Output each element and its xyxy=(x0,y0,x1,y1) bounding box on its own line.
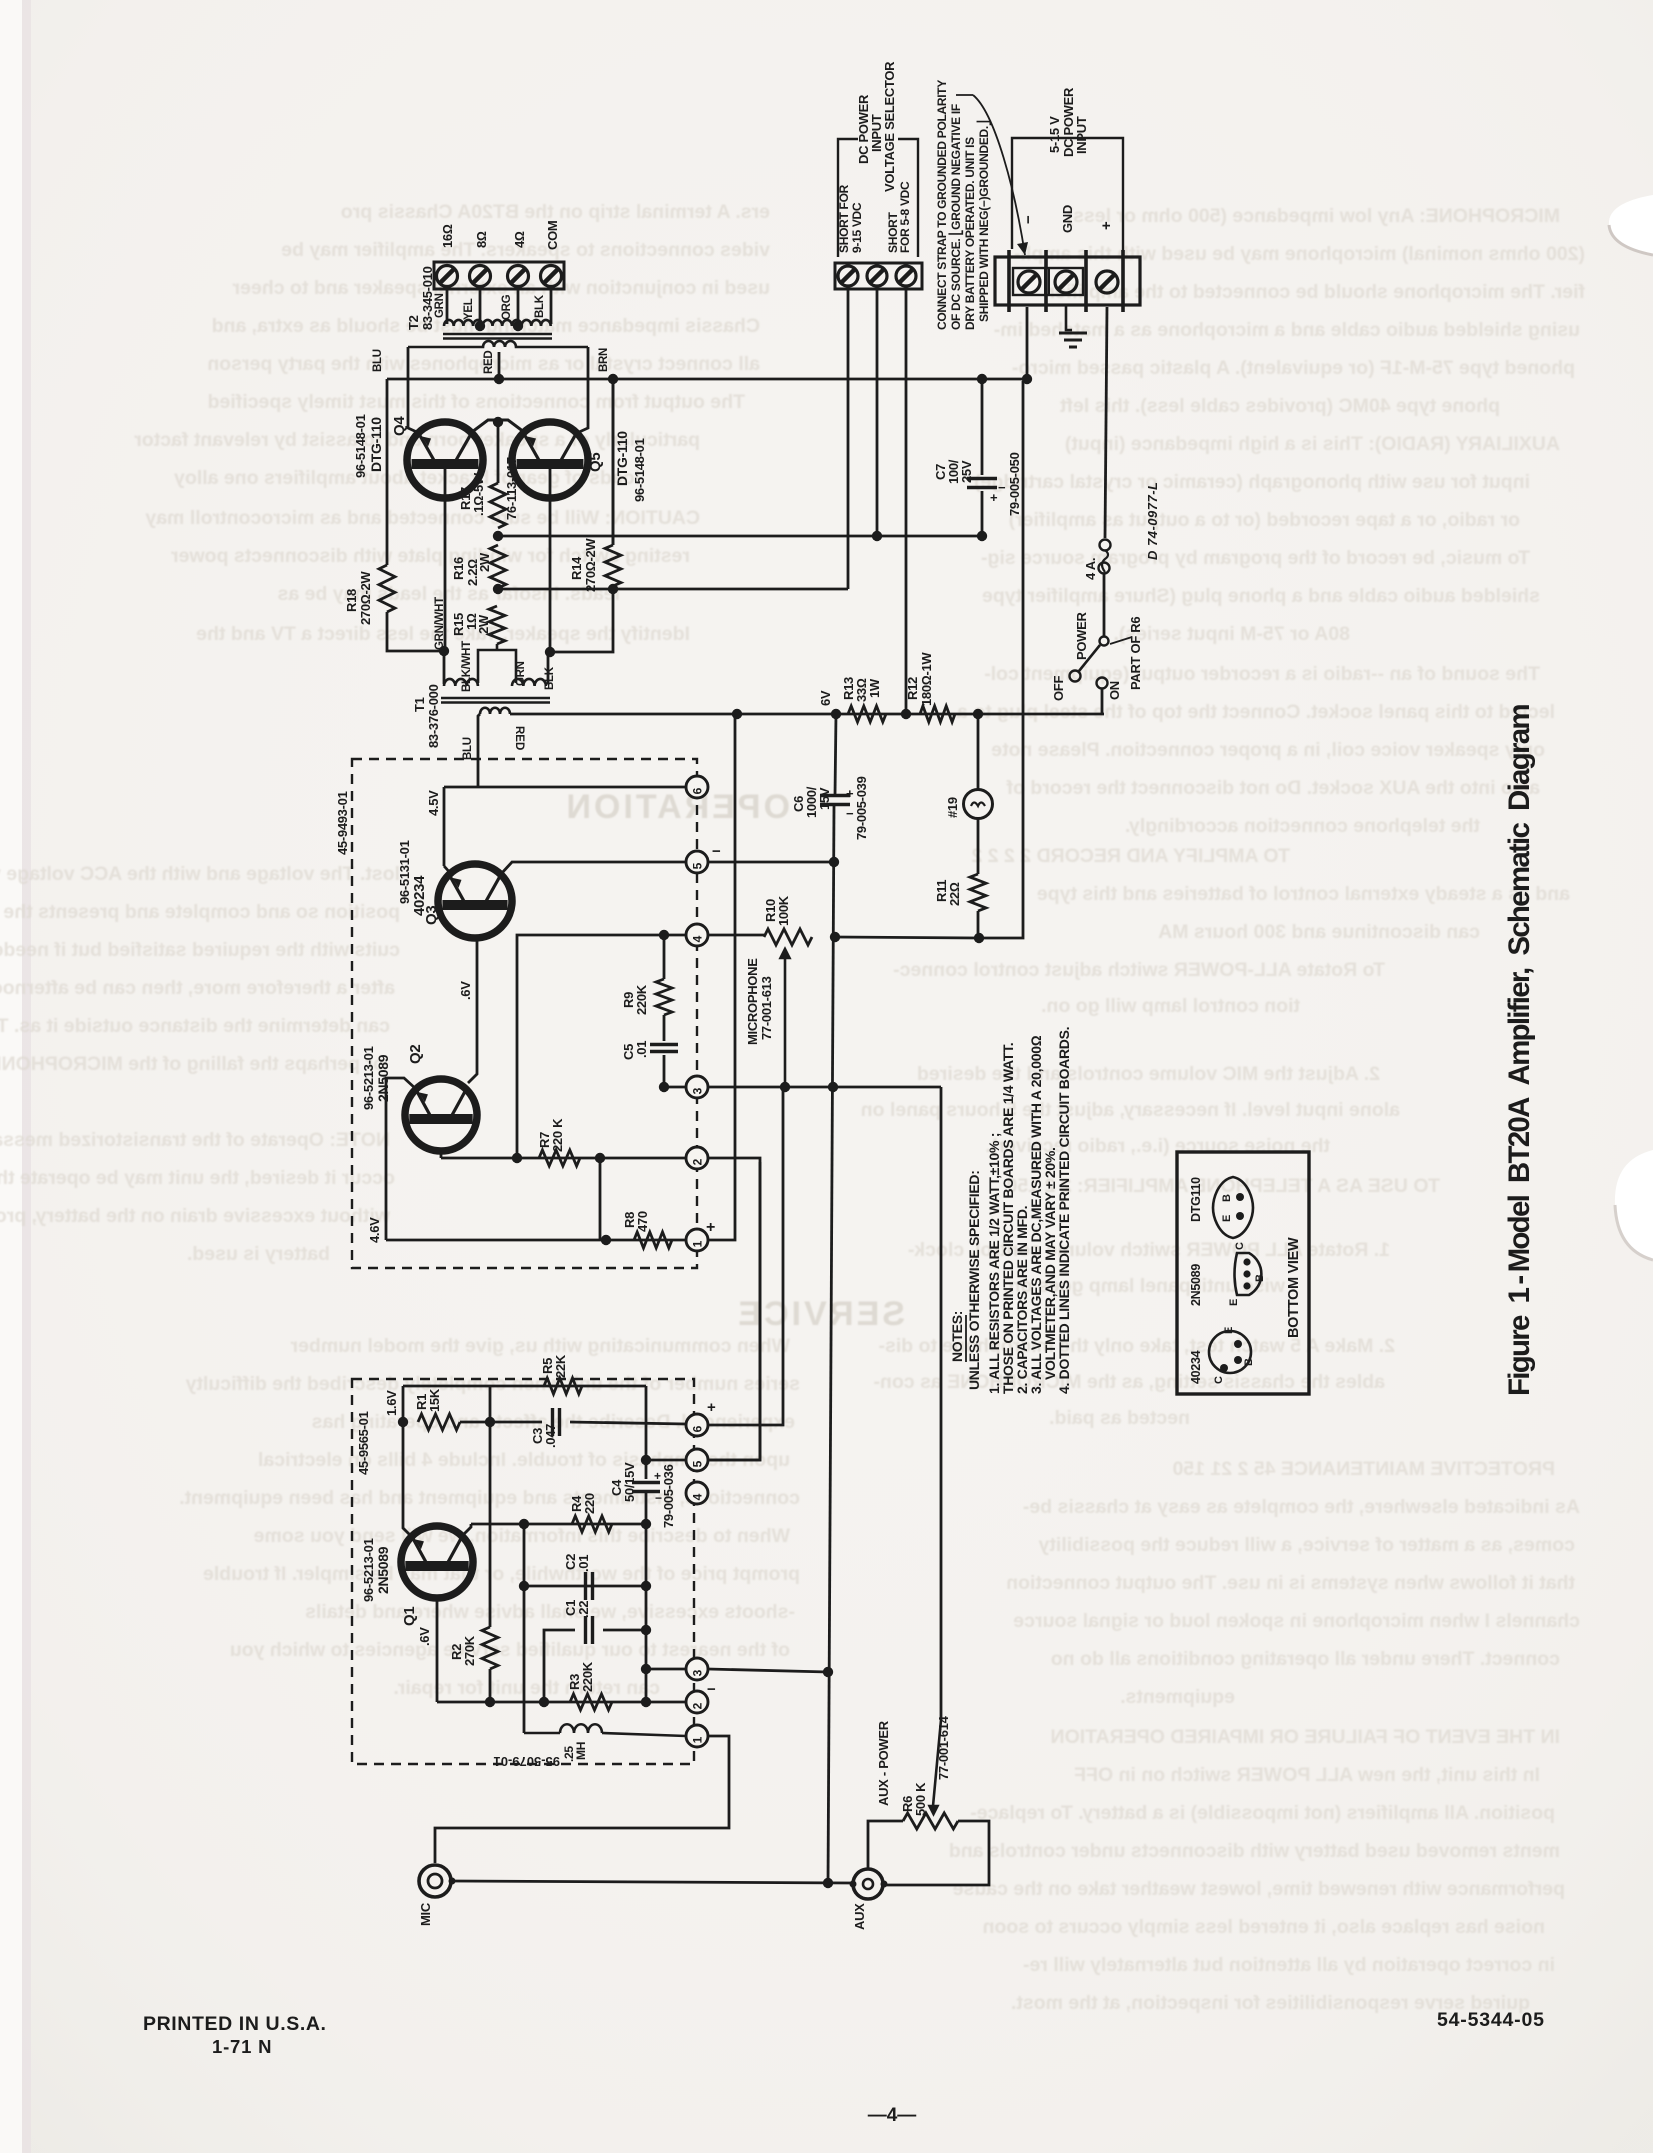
wire pin2 to riser xyxy=(708,1157,735,1160)
svg-text:C: C xyxy=(1234,1242,1246,1250)
inductor L1 .25MH xyxy=(524,1732,560,1735)
wire T2 primary right lead to Q5 collector xyxy=(577,347,588,433)
wire 4.6V rail to pin1 xyxy=(386,1239,686,1242)
wire C7 top lead xyxy=(981,379,984,475)
PCB1 pin 4 xyxy=(686,924,708,946)
node bottom C1 xyxy=(539,1697,549,1707)
svg-text:+: + xyxy=(707,1399,716,1416)
wire lamp bottom corner xyxy=(979,381,1023,938)
svg-text:NOTE: Operate of the transisto: NOTE: Operate of the transistorized mess… xyxy=(0,1129,390,1151)
wire C5 to pin3 line xyxy=(663,1055,666,1087)
svg-text:80A or 75-M input series).: 80A or 75-M input series). xyxy=(1113,623,1350,645)
svg-text:R16: R16 xyxy=(451,557,466,580)
svg-text:.1Ω-5W: .1Ω-5W xyxy=(471,472,486,516)
svg-text:B: B xyxy=(1221,1194,1233,1202)
svg-text:R18: R18 xyxy=(344,589,359,612)
svg-text:or radio, or a tape recorded (: or radio, or a tape recorded (or to a ou… xyxy=(1009,509,1520,531)
wire pin4 feed riser xyxy=(517,935,686,1158)
svg-text:BOTTOM VIEW: BOTTOM VIEW xyxy=(1286,1237,1302,1338)
svg-text:ers. A terminal strip on the B: ers. A terminal strip on the BT20A Chass… xyxy=(341,201,770,223)
svg-text:The output from connections of: The output from connections of this must… xyxy=(208,391,745,413)
wire T1 sec left BLU to pin6 line xyxy=(478,714,480,787)
svg-text:GRN/WHT: GRN/WHT xyxy=(434,597,446,650)
svg-text:220 K: 220 K xyxy=(550,1118,565,1152)
svg-text:also into the AUX socket. Do n: also into the AUX socket. Do not disconn… xyxy=(1006,777,1540,799)
terminal strip TB2 speaker output (16/8/4/COM) xyxy=(434,262,564,289)
wire pin3 stub PCB2 xyxy=(646,1668,686,1671)
svg-text:To Rotate ALL-POWER switch adj: To Rotate ALL-POWER switch adjust contro… xyxy=(893,959,1385,981)
wire R9-C5 stub xyxy=(663,1015,666,1041)
svg-text:without excessive drain on the: without excessive drain on the battery, … xyxy=(0,1205,391,1227)
wire bus A vertical xyxy=(835,714,836,795)
svg-text:270Ω-2W: 270Ω-2W xyxy=(583,538,598,592)
node R9 top junction xyxy=(659,930,669,940)
svg-text:4. DOTTED LINES INDICATE PRINT: 4. DOTTED LINES INDICATE PRINTED CIRCUIT… xyxy=(1056,1027,1072,1394)
screw 4-ohm xyxy=(508,266,529,287)
node rail-PCB1 riser xyxy=(732,709,742,719)
svg-text:79-005-039: 79-005-039 xyxy=(854,776,869,840)
svg-text:5-15 V: 5-15 V xyxy=(1047,116,1062,153)
svg-text:performance with renewed time,: performance with renewed time, lowest we… xyxy=(953,1878,1565,1900)
node R17-R16 junction xyxy=(493,531,503,541)
strap pointer curve xyxy=(956,95,1025,255)
wire lamp top lead xyxy=(977,714,980,789)
svg-text:-shoots excessive, we shall ad: -shoots excessive, we shall advise where… xyxy=(305,1601,795,1623)
svg-text:T1: T1 xyxy=(412,697,427,712)
wire C4 column mid xyxy=(645,1491,648,1702)
svg-text:R14: R14 xyxy=(569,556,584,580)
node C7 branch on rail xyxy=(977,374,987,384)
wire junction to R17 xyxy=(497,422,500,483)
wire Q4/Q5 drive join left xyxy=(472,420,498,432)
wire pin1 to MIC loop xyxy=(435,1736,729,1863)
node bottom C4col xyxy=(641,1697,651,1707)
svg-text:AUXILIARY (RADIO): This is a h: AUXILIARY (RADIO): This is a high impeda… xyxy=(1065,433,1560,455)
wire left edge down xyxy=(402,1386,405,1422)
wire BLU down to R18 xyxy=(386,379,389,565)
node BRN on rail xyxy=(608,374,618,384)
wire pin5 riser xyxy=(708,1158,760,1460)
svg-text:ments removed used battery wit: ments removed used battery with disconne… xyxy=(949,1840,1560,1862)
svg-text:1.6V: 1.6V xyxy=(384,1390,399,1416)
transformer T2 secondary winding xyxy=(444,320,551,326)
node lamp-R11 bottom junction xyxy=(974,933,984,943)
PCB2 pin 4 xyxy=(686,1482,708,1504)
svg-text:series number of the unit when: series number of the unit when completel… xyxy=(185,1373,800,1395)
resistor R4 xyxy=(572,1516,612,1532)
node Q4 emitter junction xyxy=(439,646,449,656)
wire R7 rail xyxy=(441,1157,686,1160)
node ORG tap xyxy=(513,321,523,331)
svg-text:4: 4 xyxy=(691,935,705,942)
svg-text:can discontinue and 300 hours: can discontinue and 300 hours MA xyxy=(1158,921,1480,943)
svg-text:B: B xyxy=(1243,1358,1255,1366)
svg-text:the telephone connection accor: the telephone connection accordingly. xyxy=(1125,815,1480,837)
PCB1 pin 6 xyxy=(686,776,708,798)
wire ON contact to 6V rail xyxy=(1101,689,1104,714)
svg-text:2: 2 xyxy=(691,1158,705,1165)
svg-text:MICROPHONE: MICROPHONE xyxy=(745,958,760,1045)
wire PCB2 top rail xyxy=(403,1385,646,1388)
svg-text:after a therefore more, then c: after a therefore more, then can be afte… xyxy=(0,977,395,999)
svg-text:Q5: Q5 xyxy=(587,453,604,472)
wire C7 bottom lead xyxy=(981,491,984,536)
wire selector screw3 down xyxy=(905,289,908,714)
wire R11 bottom lead xyxy=(977,911,980,938)
svg-text:C: C xyxy=(1213,1376,1225,1384)
svg-text:OPERATION: OPERATION xyxy=(563,788,790,826)
screw 8-ohm xyxy=(470,266,491,287)
capacitor C5 xyxy=(650,1045,678,1052)
svg-text:5: 5 xyxy=(691,1460,705,1467)
svg-text:PRINTED IN U.S.A.: PRINTED IN U.S.A. xyxy=(143,2013,327,2035)
svg-text:D 74-0977-L: D 74-0977-L xyxy=(1145,482,1160,560)
svg-text:9-15 VDC: 9-15 VDC xyxy=(850,202,864,253)
svg-text:4 A.: 4 A. xyxy=(1083,558,1098,580)
screw 16-ohm xyxy=(437,266,458,287)
wire Q2 emitter to 4.6V rail xyxy=(386,1078,416,1240)
resistor R9 xyxy=(656,979,672,1015)
svg-text:of the nearest to our qualifie: of the nearest to our qualified service … xyxy=(230,1639,790,1661)
resistor R15 xyxy=(489,606,505,644)
pinout 40234 round xyxy=(1209,1331,1251,1373)
svg-text:77-001-613: 77-001-613 xyxy=(759,976,774,1040)
svg-text:96-5148-01: 96-5148-01 xyxy=(632,438,647,502)
fuse 4A xyxy=(1100,540,1111,551)
svg-text:leads. Insofar as the leads ma: leads. Insofar as the leads may be as xyxy=(277,583,620,605)
svg-text:.047: .047 xyxy=(543,1424,558,1448)
transformer T1 core xyxy=(441,697,550,700)
wire Q4 emitter to T1 winding xyxy=(443,651,446,684)
svg-text:96-5213-01: 96-5213-01 xyxy=(361,1046,376,1110)
wire pin3 to AUX riser xyxy=(708,1086,941,1089)
svg-text:220K: 220K xyxy=(634,984,649,1015)
svg-text:470: 470 xyxy=(635,1211,650,1232)
svg-text:15V: 15V xyxy=(817,787,832,810)
svg-text:83-376-000: 83-376-000 xyxy=(426,684,441,748)
svg-text:+: + xyxy=(990,490,998,505)
svg-text:VOLTAGE SELECTOR: VOLTAGE SELECTOR xyxy=(882,61,897,192)
resistor R7 xyxy=(539,1150,580,1166)
screw selector 1 xyxy=(838,266,858,286)
resistor R5 xyxy=(544,1378,582,1394)
connector AUX xyxy=(853,1869,883,1899)
pinout 2N5089 halfmoon xyxy=(1235,1253,1262,1295)
svg-text:40234: 40234 xyxy=(1189,1350,1203,1384)
svg-text:Q4: Q4 xyxy=(391,416,408,436)
PCB2 pin 3 xyxy=(686,1658,708,1680)
svg-text:1: 1 xyxy=(691,1240,705,1247)
wire 6V rail from T1 RED xyxy=(510,713,1104,716)
svg-text:1W: 1W xyxy=(867,678,882,698)
node R8 junction xyxy=(601,1235,611,1245)
wire selector screw2 down xyxy=(876,289,879,536)
svg-text:in correct operation by all at: in correct operation by all attention bu… xyxy=(1023,1954,1555,1976)
svg-text:BRN: BRN xyxy=(598,348,610,372)
svg-text:tion control lamp will go on.: tion control lamp will go on. xyxy=(1041,995,1300,1017)
PCB 45-9565-01 dashed outline xyxy=(352,1379,694,1764)
svg-text:RED: RED xyxy=(483,351,495,374)
wire R6 wiper xyxy=(930,1720,942,1814)
wire Q4 emitter lead xyxy=(444,468,447,651)
node R14 bottom junction xyxy=(608,584,618,594)
svg-text:79-005-050: 79-005-050 xyxy=(1007,452,1022,516)
wire Q3 collector riser xyxy=(443,787,446,866)
svg-text:−: − xyxy=(998,480,1006,495)
node bottom R2 xyxy=(485,1697,495,1707)
svg-text:1: 1 xyxy=(691,1736,705,1743)
svg-text:phone type 40MC (provides cabl: phone type 40MC (provides cable less). t… xyxy=(1060,395,1500,417)
svg-text:E: E xyxy=(1221,1215,1233,1222)
svg-text:OFF: OFF xyxy=(1051,676,1066,701)
wire mid rail y536 xyxy=(498,535,982,538)
svg-text:6V: 6V xyxy=(818,690,833,706)
svg-text:position so and complete and p: position so and complete and presents th… xyxy=(0,901,400,923)
svg-text:+: + xyxy=(846,786,854,801)
PCB2 pin 5 xyxy=(686,1449,708,1471)
svg-text:DTG-110: DTG-110 xyxy=(368,417,384,472)
node pin5 junction xyxy=(641,1455,651,1465)
svg-text:−: − xyxy=(707,1681,716,1698)
svg-text:220K: 220K xyxy=(580,1661,595,1692)
wire R10 wiper column xyxy=(783,1087,785,1091)
transistor Q4 xyxy=(407,422,483,498)
svg-text:T2: T2 xyxy=(406,315,421,330)
svg-text:phoned type 75-M-1F (or equiva: phoned type 75-M-1F (or equivalent). A p… xyxy=(1012,357,1575,379)
svg-text:.6V: .6V xyxy=(458,981,473,1000)
svg-text:only speaker voice coil, in a: only speaker voice coil, in a proper con… xyxy=(991,739,1545,761)
svg-text:PART OF R6: PART OF R6 xyxy=(1128,617,1143,690)
screw minus input xyxy=(1018,271,1040,293)
svg-text:UNLESS OTHERWISE SPECIFIED:: UNLESS OTHERWISE SPECIFIED: xyxy=(966,1170,982,1390)
svg-text:GRN: GRN xyxy=(434,293,446,318)
node rail to minus-input xyxy=(1022,374,1032,384)
svg-text:50/15V: 50/15V xyxy=(622,1462,637,1502)
wire R9 top stub xyxy=(663,935,666,979)
svg-text:noise has replace also, it ent: noise has replace also, it entered less … xyxy=(983,1916,1545,1938)
transistor Q2 xyxy=(405,1079,477,1151)
svg-text:.6V: .6V xyxy=(417,1627,432,1646)
wire C4 column top xyxy=(645,1386,648,1479)
pinout DTG110 diamond xyxy=(1213,1177,1253,1238)
svg-text:54-5344-05: 54-5344-05 xyxy=(1437,2009,1545,2031)
resistor R10 (mic volume) xyxy=(764,929,812,945)
svg-text:3: 3 xyxy=(691,1087,705,1094)
capacitor C1 xyxy=(586,1616,593,1644)
capacitor C2 xyxy=(586,1572,593,1600)
svg-text:DTG-110: DTG-110 xyxy=(614,431,630,486)
wire Q3 base down to Q2 xyxy=(468,938,477,1083)
node Q5 emitter junction xyxy=(545,647,555,657)
svg-text:CAUTION: Will be sure connecte: CAUTION: Will be sure connected and as m… xyxy=(145,507,700,529)
svg-text:5: 5 xyxy=(691,862,705,869)
wire R1 to C3 xyxy=(460,1421,542,1424)
svg-text:The sound of an --radio is a r: The sound of an --radio is a recorder ou… xyxy=(984,663,1540,685)
wire pin4 to R10 line xyxy=(708,934,764,937)
svg-text:AUX - POWER: AUX - POWER xyxy=(876,1720,891,1806)
svg-text:ON: ON xyxy=(1107,681,1122,700)
wire R10 wiper arrow xyxy=(781,949,790,1087)
PCB1 pin 5 xyxy=(686,851,708,873)
PCB2 pin 2 xyxy=(686,1691,708,1713)
connector MIC xyxy=(419,1865,451,1897)
svg-text:40234: 40234 xyxy=(411,875,428,916)
svg-text:2. Adjust the MIC volume contr: 2. Adjust the MIC volume controls and th… xyxy=(917,1063,1380,1085)
resistor R11 xyxy=(970,874,986,911)
resistor R17 xyxy=(490,483,506,528)
node bus A pin3 PCB2 xyxy=(823,1667,833,1677)
wire Q2 base to R7 rail xyxy=(440,1151,443,1158)
node R16-R15 junction xyxy=(493,584,503,594)
node C1 right xyxy=(641,1625,651,1635)
transformer T1 primary left xyxy=(444,679,478,686)
svg-text:OF DC SOURCE. ⎣GROUND NEGATIVE: OF DC SOURCE. ⎣GROUND NEGATIVE IF xyxy=(948,104,964,330)
wire C1 right lead xyxy=(603,1629,646,1632)
resistor R1 xyxy=(418,1414,460,1430)
node C2 left xyxy=(519,1581,529,1591)
wire Q3 emitter to pin5 line xyxy=(501,862,686,874)
node driver junction xyxy=(493,417,503,427)
svg-text:.01: .01 xyxy=(634,1041,649,1058)
svg-text:180Ω-1W: 180Ω-1W xyxy=(919,652,934,706)
wire B+ rail BLU-RED-BRN xyxy=(387,378,1027,381)
svg-text:#19: #19 xyxy=(945,797,960,818)
svg-text:that it follows when systems i: that it follows when systems is in use. … xyxy=(1006,1572,1575,1594)
svg-text:Figure 1 - Model BT20A Ampl: Figure 1 - Model BT20A Amplifier, Schema… xyxy=(1503,705,1536,1396)
svg-text:BLU: BLU xyxy=(462,737,474,760)
svg-text:shielded audio cable and a pho: shielded audio cable and a phone plug (S… xyxy=(982,585,1540,607)
svg-text:25V: 25V xyxy=(959,460,974,483)
svg-text:prompt price of the worthwhile: prompt price of the worthwhile, or that … xyxy=(203,1563,800,1585)
wire R15 to T1 center bracket xyxy=(478,644,516,683)
svg-text:270Ω-2W: 270Ω-2W xyxy=(358,571,373,625)
svg-text:fier. The microphone should be: fier. The microphone should be connected… xyxy=(1047,281,1585,303)
resistor R18 xyxy=(379,565,395,612)
node R2 top junction xyxy=(485,1417,495,1427)
wire rail y589 xyxy=(498,588,848,591)
transformer T2 core xyxy=(443,333,552,336)
svg-text:Q1: Q1 xyxy=(401,1607,418,1626)
PCB2 pin 6 xyxy=(686,1414,708,1436)
PCB2 pin 1 xyxy=(686,1725,708,1747)
svg-text:channels I when microphone in: channels I when microphone in spoken lou… xyxy=(1013,1610,1580,1632)
svg-text:FOR 5-8 VDC: FOR 5-8 VDC xyxy=(898,181,912,253)
wire T2 primary left lead to Q4 collector xyxy=(408,347,419,433)
svg-text:When communicating with us, gi: When communicating with us, give the mod… xyxy=(290,1335,790,1357)
wire pin5 stub xyxy=(646,1459,686,1462)
svg-text:6: 6 xyxy=(691,1425,705,1432)
svg-text:45-9565-01: 45-9565-01 xyxy=(356,1411,371,1475)
svg-text:SHIPPED WITH NEG(−)GROUNDED.⎦: SHIPPED WITH NEG(−)GROUNDED.⎦ xyxy=(976,120,992,322)
node C7 mid tap xyxy=(977,531,987,541)
wire Q5 emitter lead xyxy=(549,468,552,652)
wire GRN screw to T2 xyxy=(446,287,449,324)
svg-text:(200 ohms nominal) microphone: (200 ohms nominal) microphone may be use… xyxy=(1014,243,1585,265)
node R13-R12 junction xyxy=(901,709,911,719)
svg-text:NOTES:: NOTES: xyxy=(949,1311,965,1362)
label bracket selector xyxy=(838,139,918,257)
svg-text:IN THE EVENT OF FAILURE OR IMP: IN THE EVENT OF FAILURE OR IMPAIRED OPER… xyxy=(1050,1726,1560,1748)
svg-text:2W: 2W xyxy=(477,552,492,572)
svg-text:−: − xyxy=(846,806,854,821)
svg-text:+: + xyxy=(1098,221,1115,230)
node C5-pin3 junction xyxy=(659,1082,669,1092)
node R7-R8 link junction xyxy=(595,1153,605,1163)
wire YEL tap to T2 xyxy=(479,287,482,327)
transistor Q3 xyxy=(438,864,512,938)
svg-text:input for use with phonograph: input for use with phonograph (ceramic o… xyxy=(974,471,1530,493)
node bus A R10 xyxy=(830,932,840,942)
lamp #19 pilot xyxy=(964,790,993,819)
wire T2 center tap RED xyxy=(498,352,501,379)
svg-text:77-001-614: 77-001-614 xyxy=(936,1715,951,1780)
svg-text:E: E xyxy=(1223,1327,1235,1334)
node R4 left junction xyxy=(519,1519,529,1529)
pointer PART OF R6 xyxy=(1110,637,1132,644)
svg-text:16Ω: 16Ω xyxy=(440,224,455,248)
svg-text:E: E xyxy=(1228,1299,1240,1306)
svg-text:76-113-017: 76-113-017 xyxy=(504,457,519,520)
transformer T1 secondary xyxy=(480,708,510,714)
svg-text:500 K: 500 K xyxy=(913,1782,928,1816)
wire selector screw1 down xyxy=(847,289,850,589)
svg-text:In this unit, the new ALL POWE: In this unit, the new ALL POWER switch o… xyxy=(1074,1764,1540,1786)
resistor R3 xyxy=(570,1694,612,1710)
svg-text:2: 2 xyxy=(691,1702,705,1709)
svg-text:CONNECT STRAP TO GROUNDED POLA: CONNECT STRAP TO GROUNDED POLARITY xyxy=(935,80,949,330)
svg-text:MH: MH xyxy=(574,1742,588,1760)
node 6V C6 junction xyxy=(831,709,841,719)
wire R7-R8 link xyxy=(599,1158,602,1240)
svg-text:96-5148-01: 96-5148-01 xyxy=(353,414,368,478)
svg-text:BLU: BLU xyxy=(372,349,384,372)
svg-text:occur it desired, the unit may: occur it desired, the unit may be operat… xyxy=(0,1167,395,1189)
label bracket power input xyxy=(1012,138,1123,251)
svg-text:COM: COM xyxy=(545,221,560,250)
svg-text:TO AMPLIFY AND RECORD 2 2 2 2: TO AMPLIFY AND RECORD 2 2 2 2 xyxy=(971,845,1290,867)
svg-text:lost. The voltage and with the: lost. The voltage and with the ACC volta… xyxy=(0,863,400,885)
svg-text:.01: .01 xyxy=(576,1555,591,1572)
svg-text:2W: 2W xyxy=(476,614,491,634)
svg-text:.22: .22 xyxy=(576,1601,591,1618)
wire R14 top lead xyxy=(612,379,615,545)
svg-text:95-5079-01: 95-5079-01 xyxy=(494,1754,561,1769)
wire Q1 emitter to R1 node xyxy=(403,1422,412,1537)
screw selector 3 xyxy=(896,266,916,286)
resistor R16 xyxy=(490,545,506,588)
switch POWER (part of R6) xyxy=(1100,637,1109,646)
svg-text:BLK: BLK xyxy=(544,666,556,690)
resistor R12 xyxy=(920,706,955,722)
svg-text:2N5089: 2N5089 xyxy=(1189,1264,1203,1306)
node YEL tap xyxy=(475,321,485,331)
capacitor C7 (electrolytic) xyxy=(967,479,997,488)
svg-text:79-005-036: 79-005-036 xyxy=(661,1464,676,1528)
wire fuse to switch pivot xyxy=(1103,573,1106,637)
wire R2 column xyxy=(489,1386,492,1627)
node pin3 junction PCB2 xyxy=(641,1664,651,1674)
wire AUX riser down xyxy=(940,1087,943,1720)
svg-text:4.5V: 4.5V xyxy=(426,790,441,816)
wire C3 to pin6 xyxy=(570,1422,686,1424)
PCB 45-9493-01 dashed outline xyxy=(352,759,697,1268)
resistor R14 top lead xyxy=(612,379,615,545)
svg-text:220: 220 xyxy=(582,1493,597,1514)
wire Q5 emitter to T1 winding xyxy=(547,652,550,684)
node R4 right junction xyxy=(641,1519,651,1529)
PCB1 pin 3 xyxy=(686,1076,708,1098)
svg-text:equipments.: equipments. xyxy=(1120,1686,1235,1708)
